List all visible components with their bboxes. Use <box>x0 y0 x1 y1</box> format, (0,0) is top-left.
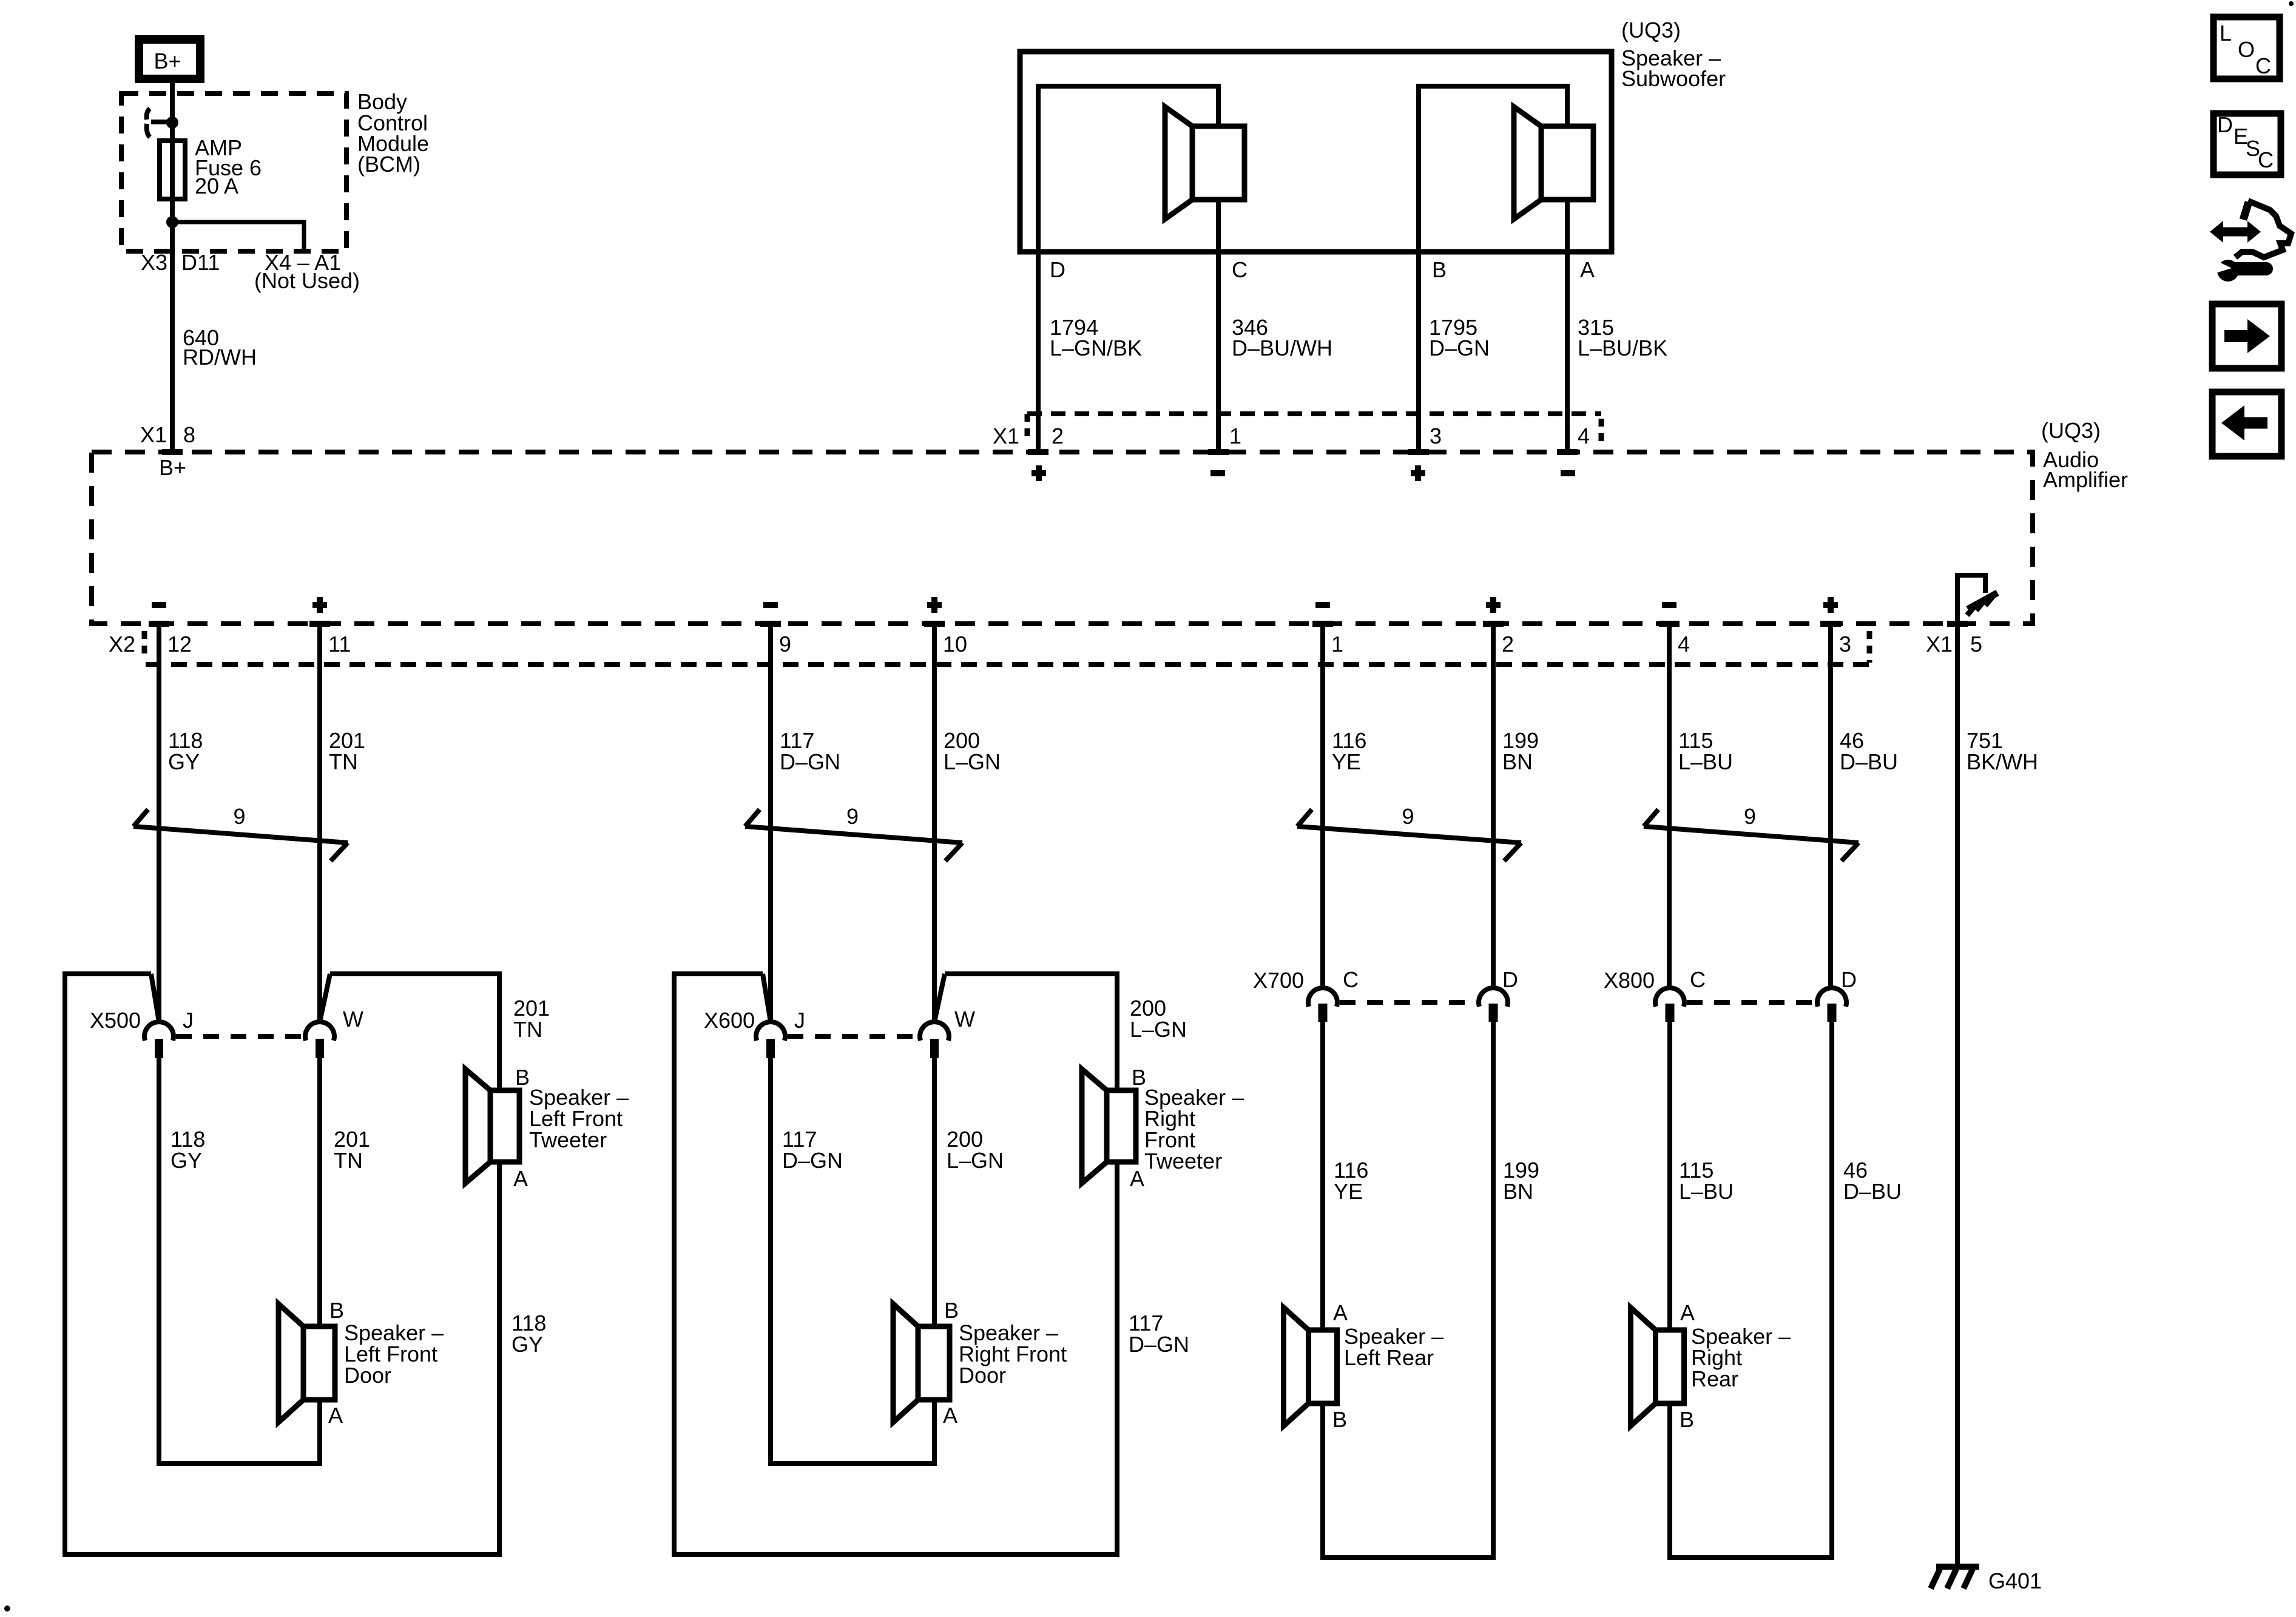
svg-text:YE: YE <box>1334 1179 1363 1204</box>
left rear speaker return loop <box>1323 1022 1493 1558</box>
svg-text:A: A <box>1580 257 1595 282</box>
minus sign amp X2-9 <box>763 602 778 608</box>
connector X2 left bracket <box>142 631 147 660</box>
wire 117 D–GN from amplifier <box>768 624 773 1022</box>
speaker left front door horn <box>279 1304 303 1422</box>
svg-text:Subwoofer: Subwoofer <box>1621 66 1726 91</box>
speaker left front tweeter body <box>490 1090 519 1162</box>
fuse AMP Fuse 6 20 A <box>160 141 185 199</box>
svg-text:C: C <box>2255 53 2271 78</box>
harness crossing mark (rear right pair) <box>1644 809 1859 861</box>
svg-text:C: C <box>1690 967 1706 992</box>
svg-text:BK/WH: BK/WH <box>1967 749 2038 774</box>
plus sign amp X1-3 <box>1411 465 1425 481</box>
bottom left dot <box>4 1605 10 1612</box>
svg-text:L: L <box>2220 21 2232 46</box>
svg-text:9: 9 <box>779 632 791 657</box>
svg-text:BN: BN <box>1503 1179 1533 1204</box>
svg-text:O: O <box>2238 37 2255 62</box>
svg-text:A: A <box>1130 1166 1144 1191</box>
svg-text:20 A: 20 A <box>195 174 238 198</box>
svg-text:B: B <box>1680 1407 1694 1432</box>
svg-text:D–GN: D–GN <box>1129 1332 1189 1357</box>
wire 115 L-BU to right rear speaker <box>1667 1022 1672 1330</box>
wire subwoofer A / amp X1-4 <box>1565 200 1570 452</box>
connector pin X700-D <box>1489 1004 1498 1022</box>
wire 200 L-GN inside door <box>932 1058 937 1326</box>
svg-text:X800: X800 <box>1604 968 1655 993</box>
svg-text:W: W <box>343 1007 363 1031</box>
svg-text:D–BU: D–BU <box>1843 1179 1902 1204</box>
svg-text:A: A <box>1680 1300 1695 1325</box>
svg-text:G401: G401 <box>1988 1568 2042 1593</box>
svg-text:RD/WH: RD/WH <box>183 345 257 370</box>
svg-text:D11: D11 <box>181 250 220 275</box>
svg-text:L–GN/BK: L–GN/BK <box>1050 336 1142 360</box>
X600 connector dashed line <box>788 1034 917 1039</box>
connector pin X500-W <box>316 1039 324 1058</box>
X800 connector dashed line <box>1687 1000 1815 1005</box>
connector X1 right bracket <box>1599 419 1604 445</box>
wire 201 TN inside door <box>317 1058 322 1326</box>
svg-text:B: B <box>329 1298 344 1323</box>
X700 connector dashed line <box>1340 1000 1476 1005</box>
speaker subwoofer left horn <box>1165 107 1192 219</box>
svg-text:9: 9 <box>846 804 859 829</box>
svg-text:B: B <box>944 1298 959 1323</box>
svg-text:4: 4 <box>1678 632 1690 657</box>
connector arc X500-J <box>144 1022 174 1041</box>
svg-text:L–BU: L–BU <box>1679 1179 1734 1204</box>
svg-text:X700: X700 <box>1253 968 1304 993</box>
svg-text:2: 2 <box>1052 424 1064 448</box>
svg-text:(UQ3): (UQ3) <box>2041 418 2101 443</box>
svg-text:L–GN: L–GN <box>1130 1017 1187 1042</box>
speaker left rear body <box>1309 1330 1337 1403</box>
svg-text:(Not Used): (Not Used) <box>254 268 360 293</box>
svg-text:D–BU: D–BU <box>1840 749 1898 774</box>
svg-text:TN: TN <box>334 1148 363 1173</box>
wire subwoofer C / amp X1-1 <box>1216 200 1221 452</box>
wire subwoofer B / amp X1-3 <box>1419 86 1567 452</box>
svg-text:11: 11 <box>328 632 351 657</box>
wire 46 D–BU from amplifier <box>1828 624 1833 988</box>
power terminal B+ box <box>139 39 200 79</box>
minus sign amp X1-4 <box>1561 470 1575 476</box>
wire 200 L–GN from amplifier <box>932 624 937 1022</box>
minus sign amp X2-1 <box>1315 602 1330 608</box>
svg-text:D–BU/WH: D–BU/WH <box>1232 336 1332 360</box>
svg-text:A: A <box>513 1166 528 1191</box>
svg-text:1: 1 <box>1331 632 1343 657</box>
speaker right front door horn <box>893 1304 918 1422</box>
harness crossing mark (rear left pair) <box>1297 809 1521 861</box>
svg-text:(BCM): (BCM) <box>357 152 420 177</box>
back arrow icon box <box>2212 392 2281 456</box>
minus sign amp X2-12 <box>152 602 166 608</box>
connector pin X600-W <box>930 1039 939 1058</box>
svg-text:8: 8 <box>183 422 195 447</box>
svg-text:D–GN: D–GN <box>782 1148 843 1173</box>
svg-text:4: 4 <box>1578 424 1590 448</box>
svg-text:Left Rear: Left Rear <box>1344 1345 1434 1370</box>
svg-text:Amplifier: Amplifier <box>2043 467 2128 492</box>
connector pin X700-C <box>1319 1004 1328 1022</box>
svg-text:3: 3 <box>1839 632 1851 657</box>
speaker subwoofer left body <box>1192 126 1244 200</box>
svg-text:9: 9 <box>233 804 245 829</box>
speaker subwoofer right horn <box>1514 107 1541 219</box>
svg-text:Door: Door <box>959 1363 1006 1388</box>
wire subwoofer D / amp X1-2 <box>1038 86 1218 452</box>
svg-text:X1: X1 <box>140 422 167 447</box>
svg-text:9: 9 <box>1744 804 1756 829</box>
svg-text:3: 3 <box>1430 424 1442 448</box>
svg-text:A: A <box>328 1403 343 1428</box>
diagnostic car icon double arrow <box>2220 228 2251 237</box>
wire 118 GY inside door <box>159 1058 320 1463</box>
svg-text:D: D <box>1502 967 1518 992</box>
svg-text:(UQ3): (UQ3) <box>1621 18 1681 42</box>
wire from B+ terminal down to amplifier pin X1-8 <box>170 79 175 452</box>
left front door box (X500) outline <box>65 974 499 1555</box>
svg-text:X1: X1 <box>993 424 1019 448</box>
svg-text:BN: BN <box>1502 749 1533 774</box>
speaker left rear horn <box>1284 1308 1309 1426</box>
connector X2 line <box>146 662 1872 667</box>
LOC navigation icon box <box>2213 17 2280 79</box>
svg-text:A: A <box>943 1403 957 1428</box>
diagnostic car icon outline <box>2235 201 2291 257</box>
svg-text:L–BU: L–BU <box>1678 749 1733 774</box>
forward arrow icon box <box>2212 304 2281 368</box>
wire 116 YE from amplifier <box>1320 624 1325 988</box>
svg-text:GY: GY <box>168 749 200 774</box>
DESC navigation icon box <box>2213 113 2281 175</box>
speaker left front tweeter horn <box>465 1069 490 1183</box>
wire 117 D-GN inside door <box>771 1058 934 1463</box>
fusible hook symbol at BCM feed <box>147 109 150 120</box>
Speaker - Subwoofer box <box>1020 52 1612 252</box>
svg-text:12: 12 <box>167 632 192 657</box>
wire 201 TN from amplifier <box>317 624 322 1022</box>
connector pin X500-J <box>155 1039 163 1058</box>
Body Control Module (BCM) dashed box <box>121 93 346 251</box>
connector arc X800-C <box>1655 988 1684 1007</box>
connector arc X600-W <box>920 1022 949 1041</box>
wire 751 BK/WH ground lead <box>1955 624 1960 1566</box>
svg-text:YE: YE <box>1332 749 1361 774</box>
junction dot at fuse top <box>166 116 178 129</box>
speaker left front door body <box>303 1326 335 1400</box>
svg-text:5: 5 <box>1970 632 1982 657</box>
plus sign amp X1-2 <box>1032 465 1046 481</box>
page corner dot <box>2289 1 2294 6</box>
svg-text:W: W <box>954 1007 975 1031</box>
svg-text:Tweeter: Tweeter <box>1144 1149 1222 1173</box>
Audio Amplifier dashed box <box>92 452 2033 624</box>
connector arc X600-J <box>756 1022 785 1041</box>
right rear speaker return loop <box>1670 1022 1832 1558</box>
connector arc X500-W <box>305 1022 334 1041</box>
speaker right rear body <box>1656 1330 1684 1403</box>
svg-text:L–BU/BK: L–BU/BK <box>1578 336 1667 360</box>
svg-text:GY: GY <box>171 1148 202 1173</box>
chassis ground G401 <box>1936 1564 1979 1570</box>
svg-text:J: J <box>794 1008 805 1033</box>
speaker right front tweeter body <box>1107 1090 1136 1162</box>
minus sign amp X2-4 <box>1662 602 1676 608</box>
X500 notch diagonals <box>151 974 330 1022</box>
svg-text:B: B <box>1332 1407 1347 1432</box>
connector arc X800-D <box>1817 988 1846 1007</box>
harness crossing mark (front left pair) <box>133 809 348 861</box>
svg-text:J: J <box>183 1008 194 1033</box>
svg-text:B: B <box>1432 257 1447 282</box>
svg-text:C: C <box>1232 257 1248 282</box>
harness crossing mark (front right pair) <box>745 809 962 861</box>
svg-text:C: C <box>2258 147 2274 172</box>
svg-text:X1: X1 <box>1926 632 1953 657</box>
svg-text:L–GN: L–GN <box>944 749 1001 774</box>
X500 connector dashed line <box>176 1034 303 1039</box>
svg-text:B+: B+ <box>154 49 181 73</box>
svg-text:GY: GY <box>512 1332 543 1357</box>
svg-text:L–GN: L–GN <box>947 1148 1004 1173</box>
svg-text:X2: X2 <box>109 632 135 657</box>
svg-text:10: 10 <box>943 632 967 657</box>
X600 notch diagonals <box>763 974 945 1022</box>
internal chassis ground symbol <box>1968 593 1997 609</box>
diagnostic wrench icon <box>2217 260 2239 282</box>
svg-text:Tweeter: Tweeter <box>529 1127 607 1152</box>
svg-text:Door: Door <box>344 1363 391 1388</box>
svg-text:2: 2 <box>1502 632 1514 657</box>
speaker right front tweeter horn <box>1082 1069 1107 1183</box>
connector X2 right bracket <box>1867 631 1872 663</box>
svg-text:B+: B+ <box>159 455 186 480</box>
svg-text:C: C <box>1343 967 1359 992</box>
minus sign amp X1-1 <box>1210 470 1225 476</box>
wire 118 GY from amplifier <box>157 624 161 1022</box>
connector X1 left bracket <box>1025 414 1030 441</box>
plus sign amp X2-10 <box>927 597 942 613</box>
connector arc X700-C <box>1308 988 1337 1007</box>
wire 116 YE to left rear speaker <box>1320 1022 1325 1330</box>
connector pin X600-J <box>766 1039 775 1058</box>
plus sign amp X2-3 <box>1823 597 1838 613</box>
svg-text:X3: X3 <box>141 250 167 275</box>
svg-text:X500: X500 <box>90 1008 141 1033</box>
right front door box (X600) outline <box>674 974 1117 1555</box>
connector pin X800-C <box>1666 1004 1675 1022</box>
plus sign amp X2-2 <box>1486 597 1501 613</box>
wire to X4-A1 (not used) <box>172 222 304 251</box>
svg-text:TN: TN <box>513 1017 542 1042</box>
svg-text:D–GN: D–GN <box>1429 336 1490 360</box>
wire 199 BN from amplifier <box>1491 624 1496 988</box>
speaker right front door body <box>918 1326 950 1400</box>
speaker subwoofer right body <box>1541 126 1593 200</box>
svg-text:D: D <box>2217 112 2233 137</box>
internal ground hook at amp pin X1-5 <box>1957 575 1985 624</box>
speaker right rear horn <box>1631 1308 1656 1426</box>
connector X1 line (subwoofer pins) <box>1027 411 1601 416</box>
svg-text:D–GN: D–GN <box>780 749 840 774</box>
svg-text:B: B <box>515 1065 530 1090</box>
connector pin X800-D <box>1828 1004 1837 1022</box>
svg-text:TN: TN <box>329 749 358 774</box>
connector arc X700-D <box>1479 988 1508 1007</box>
pin tick marks on amplifier box edges <box>149 452 1968 624</box>
svg-text:1: 1 <box>1229 424 1241 448</box>
svg-text:9: 9 <box>1402 804 1414 829</box>
svg-text:X600: X600 <box>704 1008 755 1033</box>
svg-text:D: D <box>1841 967 1857 992</box>
junction dot below fuse <box>166 216 178 228</box>
plus sign amp X2-11 <box>312 597 327 613</box>
svg-text:D: D <box>1050 257 1065 282</box>
wire 115 L–BU from amplifier <box>1667 624 1672 988</box>
svg-text:A: A <box>1333 1300 1348 1325</box>
svg-text:Rear: Rear <box>1691 1366 1738 1391</box>
